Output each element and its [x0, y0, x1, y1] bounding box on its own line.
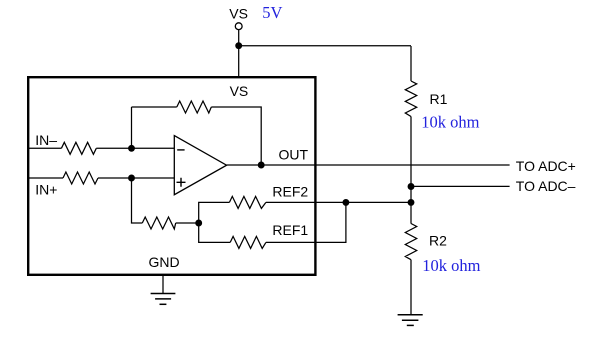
resistor REF2: [229, 196, 266, 208]
wire to REF junction: [176, 222, 199, 224]
op-amp U1: [174, 136, 226, 195]
wire REF2 riser: [199, 202, 230, 223]
resistor R1: [405, 81, 416, 117]
svg-text:10k ohm: 10k ohm: [422, 256, 480, 275]
junction inverting node: [128, 145, 135, 152]
wire resistor to op-amp non-inverting input: [98, 177, 174, 179]
ground (IC GND): [151, 294, 176, 305]
junction REF node: [195, 220, 202, 227]
wire non-inverting branch down: [132, 178, 143, 223]
svg-text:R1: R1: [430, 91, 448, 107]
junction REF2 outer: [342, 199, 349, 206]
wire IN+ input: [29, 177, 63, 179]
wire feedback to output: [211, 107, 261, 165]
resistor on IN-: [61, 142, 96, 154]
ground (R2): [398, 315, 423, 326]
svg-text:TO ADC+: TO ADC+: [516, 158, 576, 174]
wire VS vertical: [238, 30, 240, 78]
svg-text:5V: 5V: [262, 3, 282, 22]
resistor REF1: [230, 236, 266, 248]
junction non-inverting node: [128, 175, 135, 182]
svg-text:TO ADC–: TO ADC–: [516, 178, 576, 194]
junction divider mid: [408, 199, 415, 206]
IC boundary box: [28, 77, 315, 275]
wire feedback left vertical: [131, 107, 133, 148]
op-amp plus sign: [177, 178, 186, 187]
junction ADC- tap: [408, 183, 415, 190]
svg-text:OUT: OUT: [279, 146, 309, 162]
wire OUT: [227, 164, 510, 166]
wire feedback top with resistor: [132, 106, 177, 108]
svg-text:VS: VS: [229, 6, 248, 22]
wire R2 bottom to ground: [410, 260, 412, 315]
svg-text:VS: VS: [230, 83, 249, 99]
junction VS node: [235, 42, 242, 49]
wire rail VS to R1 top: [410, 46, 412, 81]
wire TO ADC- tap: [411, 185, 510, 187]
junction output node: [258, 162, 265, 169]
node VS terminal: [235, 23, 242, 30]
resistor gain lower: [142, 217, 175, 229]
svg-text:R2: R2: [429, 232, 447, 248]
svg-text:10k ohm: 10k ohm: [421, 112, 479, 131]
wire REF2 to divider rail: [266, 201, 411, 203]
wire IN- input: [29, 147, 61, 149]
svg-text:REF1: REF1: [272, 222, 308, 238]
svg-text:GND: GND: [149, 254, 180, 270]
op-amp minus sign: [177, 149, 184, 151]
wire GND stem: [162, 276, 164, 294]
wire resistor to op-amp inverting input: [96, 147, 174, 149]
wire R1 bottom to R2 top: [410, 117, 412, 224]
svg-text:IN–: IN–: [35, 132, 57, 148]
wire VS to R1: [239, 45, 411, 47]
resistor feedback: [177, 101, 212, 113]
resistor on IN+: [63, 172, 98, 184]
svg-text:IN+: IN+: [35, 182, 57, 198]
svg-text:REF2: REF2: [272, 184, 308, 200]
wire REF1 to riser: [266, 202, 346, 242]
wire REF1 dropper: [199, 223, 231, 242]
resistor R2: [405, 224, 416, 260]
